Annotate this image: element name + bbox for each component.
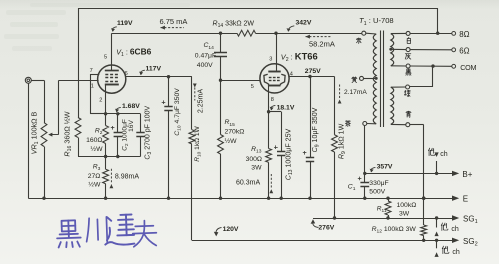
terminal SG1 [452, 215, 459, 220]
wire B+ output line 357V [365, 173, 452, 175]
wire jack tip to VR1 [31, 80, 44, 82]
wire ao drop to ground [410, 124, 424, 126]
V1 pin 7 wire to cathode node [90, 74, 99, 76]
svg-text:276V: 276V [318, 224, 334, 231]
current 2.25mA [194, 88, 196, 101]
junction V2 plate on plate rail [274, 32, 277, 35]
svg-text:500V: 500V [369, 189, 385, 196]
wire B+ plate rail 342V [112, 33, 237, 35]
other channel arrow at SG1 [435, 216, 438, 219]
V2 plate [268, 71, 280, 73]
VR1 wiper arrow [50, 134, 59, 136]
svg-text:6: 6 [125, 71, 128, 77]
svg-text:COM: COM [460, 63, 476, 72]
other channel arrow at SG2 [435, 239, 438, 242]
wire V1 plate riser [111, 33, 113, 70]
tap shiro white secondary top [406, 31, 410, 35]
svg-text:119V: 119V [117, 20, 133, 27]
resistor R15 270k [220, 80, 222, 134]
transformer secondary lower winding [391, 87, 394, 124]
svg-text:2: 2 [99, 98, 102, 104]
svg-text:330μF: 330μF [369, 180, 388, 187]
wire jack sleeve to ground [28, 83, 30, 198]
wire V1 cathode node [90, 113, 140, 115]
capacitor C2 1000uF 16V [117, 114, 119, 133]
V2 beam plates [264, 74, 268, 84]
V2 cathode lead pin 8 [268, 85, 270, 112]
svg-text:ch: ch [440, 151, 448, 158]
svg-text:100kΩ: 100kΩ [397, 202, 417, 209]
V1 plate [105, 70, 119, 72]
svg-text:18.1V: 18.1V [277, 104, 295, 111]
svg-text:6Ω: 6Ω [459, 46, 469, 55]
V1 cathode [105, 84, 119, 86]
wire midori riser to COM [410, 86, 433, 88]
tap ao blue secondary bottom [406, 123, 410, 127]
wire hai to 6 ohm [410, 49, 452, 51]
resistor R14 33k 2W [237, 30, 256, 36]
svg-text:160Ω: 160Ω [86, 137, 102, 144]
svg-text:3W: 3W [399, 210, 410, 217]
svg-text:5: 5 [251, 84, 254, 90]
capacitor C1 330uF 500V [364, 173, 366, 182]
wire V2 g2 275V [289, 76, 335, 78]
resistor R9 1k 1W [334, 77, 336, 135]
svg-text:270kΩ: 270kΩ [225, 129, 245, 136]
svg-text:60.3mA: 60.3mA [236, 179, 260, 186]
tube V1 6CB6 envelope [98, 65, 126, 93]
svg-text:B+: B+ [462, 170, 472, 179]
svg-text:357V: 357V [377, 164, 393, 171]
svg-text:8.98mA: 8.98mA [115, 173, 139, 180]
svg-text:1.68V: 1.68V [122, 103, 140, 110]
tap aka red primary top [362, 31, 366, 35]
svg-text:300Ω: 300Ω [246, 156, 262, 163]
terminal B+ [452, 171, 459, 176]
transformer core [380, 31, 382, 128]
svg-text:3W: 3W [251, 165, 262, 172]
tap kuro black secondary [406, 64, 410, 68]
svg-text:58.2mA: 58.2mA [309, 39, 335, 48]
V1 cathode lead pin 2 [105, 85, 107, 114]
resistor R12 100k 3W [423, 198, 425, 225]
terminal E [452, 196, 459, 201]
svg-text:3: 3 [269, 56, 272, 62]
svg-text:½W: ½W [90, 145, 103, 153]
wire NFB top rail [78, 8, 438, 10]
tube V2 KT66 envelope [260, 64, 289, 93]
wire cha to B+ node [364, 126, 366, 174]
terminal 8 ohm [452, 32, 456, 36]
resistor R11 100k 3W [386, 197, 389, 200]
svg-text:0.47μF: 0.47μF [195, 52, 216, 59]
svg-text:120V: 120V [223, 226, 239, 233]
wire V2 grid [221, 80, 261, 82]
resistor R3 27 ohm [105, 157, 107, 170]
wire shiro to 8 ohm [410, 33, 452, 35]
wire V2 plate riser [276, 33, 278, 71]
svg-text:ch: ch [452, 249, 460, 256]
terminal 6 ohm [452, 48, 456, 52]
tap hai gray secondary [406, 48, 410, 52]
wire SG2 120V heater line [192, 240, 452, 242]
V2 cathode [269, 85, 281, 87]
svg-text:8Ω: 8Ω [459, 30, 469, 39]
transformer T1 primary winding [373, 34, 376, 124]
potentiometer VR1 100k B [41, 123, 47, 147]
tap midori green secondary lower top [406, 85, 410, 89]
transformer secondary upper winding [391, 34, 394, 66]
wire cathode bottom node [78, 156, 141, 158]
tap cha brown primary bottom [363, 122, 367, 126]
terminal COM [452, 64, 456, 68]
svg-text:½W: ½W [225, 137, 238, 145]
capacitor C13 1000uF 25V [269, 111, 282, 113]
wire VR1 wiper to V1 grid [58, 80, 60, 134]
resistor R10 1k 1W [191, 77, 193, 130]
svg-text:8: 8 [271, 97, 274, 103]
svg-text:1: 1 [91, 84, 94, 90]
resistor R2 160 ohm [105, 114, 107, 126]
svg-text:2.25mA: 2.25mA [198, 89, 205, 113]
svg-text:2.17mA: 2.17mA [344, 89, 367, 96]
V2 grids [269, 77, 272, 79]
wire E ground rail [28, 198, 452, 200]
signature Kurokawa Tatsuo in blue ink [56, 214, 156, 250]
capacitor C14 0.47uF 400V [220, 33, 222, 53]
svg-text:ch: ch [451, 226, 459, 233]
svg-text:16V: 16V [128, 120, 135, 132]
resistor R16 360 ohm NFB [78, 8, 80, 118]
svg-text:E: E [463, 195, 468, 204]
svg-text:VR1 100kΩ B: VR1 100kΩ B [29, 111, 40, 154]
current 60.3mA [270, 174, 272, 189]
current 8.98mA [110, 169, 112, 184]
svg-text:342V: 342V [296, 19, 312, 26]
wire NFB right drop to 8-ohm tap [437, 8, 439, 33]
current 2.17mA [339, 85, 341, 100]
capacitor C9 10uF 350V [310, 77, 312, 158]
input jack J1 [25, 77, 31, 83]
svg-text:6.75 mA: 6.75 mA [160, 17, 188, 26]
capacitor C10 4.7uF 350V [168, 77, 170, 107]
V1 grids [105, 74, 108, 76]
svg-text:275V: 275V [305, 68, 321, 75]
svg-text:27Ω: 27Ω [88, 173, 101, 180]
tap ki yellow primary mid [360, 76, 364, 80]
svg-text:½W: ½W [88, 181, 101, 189]
svg-text:5: 5 [104, 54, 107, 60]
svg-text:7: 7 [90, 68, 93, 74]
capacitor C3 2700pF 100V [140, 114, 142, 133]
svg-text:117V: 117V [146, 65, 162, 72]
svg-text:400V: 400V [197, 62, 213, 69]
other channel arrow at B+ [435, 172, 438, 175]
wire SG1 line 276V [313, 218, 452, 220]
terminal SG2 [452, 238, 459, 243]
resistor R13 300 ohm 3W [268, 112, 270, 149]
junction C14 on plate rail [219, 32, 222, 35]
wire V1 g2 to R10 [126, 76, 192, 78]
wire kuro to COM [410, 65, 452, 67]
